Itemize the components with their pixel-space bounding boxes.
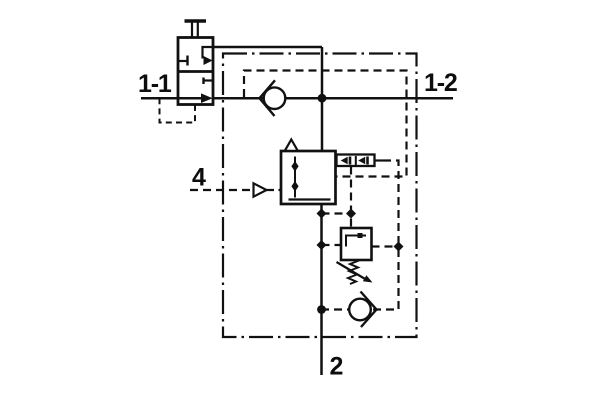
valve 1-1 bottom position flow arrow: [178, 93, 213, 103]
node diamond junction B: [346, 209, 356, 219]
svg-text:2: 2: [330, 353, 344, 381]
pilot pressure box: [341, 228, 372, 260]
node diamond junction D: [394, 242, 404, 252]
node junction bottom: [317, 305, 326, 314]
dashed link from pilot box right: [372, 245, 399, 247]
valve 1-1 body: [178, 38, 213, 105]
shuttle valve stack: [337, 155, 384, 167]
adjustment arrow: [337, 262, 373, 283]
dashed link between node junctions: [322, 212, 352, 214]
check valve CV2 bottom: [349, 292, 376, 328]
drain dashed loop under valve 1-1: [160, 98, 196, 122]
dashed pilot line down from shuttle stack: [350, 167, 352, 229]
enclosure dash-dot boundary: [223, 54, 417, 338]
wire valve top port to node: [213, 46, 322, 49]
valve 1-1 bottom position blocked port: [204, 78, 214, 85]
wire main line 1-1 to 1-2: [141, 97, 453, 100]
dashed link to pilot box left: [322, 244, 342, 246]
check valve CV1 on main line: [260, 80, 286, 116]
svg-text:1-1: 1-1: [138, 70, 172, 98]
pilot dashed enclosure line: [244, 71, 407, 177]
wire vertical drop through node to box: [321, 47, 324, 151]
node diamond junction C: [317, 240, 327, 250]
svg-text:1-2: 1-2: [424, 69, 457, 97]
svg-text:4: 4: [192, 164, 206, 192]
valve 1-1 top position flow path: [203, 47, 214, 65]
valve 1-1 pushbutton actuator: [185, 21, 207, 38]
vent triangle on flow control box: [285, 140, 298, 151]
node junction on main line: [318, 94, 327, 103]
wire vertical from flow box to port 2: [320, 204, 323, 375]
adjustment spring: [348, 261, 359, 285]
flow control box internal double arrow: [289, 157, 331, 200]
pilot line 4 dashed: [190, 189, 252, 191]
flow control box: [281, 151, 336, 204]
valve 1-1 top position blocked port: [178, 56, 188, 66]
pilot arrow symbol: [254, 183, 267, 196]
dashed pilot line from shuttle stack to check valve CV2: [322, 161, 399, 310]
node diamond junction A: [317, 209, 327, 219]
